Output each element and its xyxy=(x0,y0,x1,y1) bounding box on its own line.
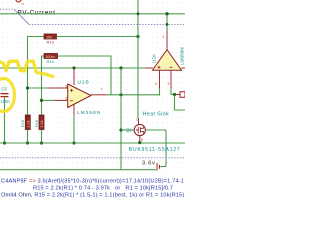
svg-text:7: 7 xyxy=(101,87,103,91)
junction dot at (41.5,143) xyxy=(40,141,43,144)
wire net A horizontal y=13.8 xyxy=(0,13,185,15)
junction dot at (138,13.8) xyxy=(137,12,140,15)
resistor R14 xyxy=(44,54,58,64)
junction dot at (27.5,143) xyxy=(26,141,29,144)
wire R15 bottom to rail xyxy=(27,130,29,144)
resistor R13 xyxy=(44,34,57,44)
svg-text:C4ANP8F => 3.6(Aref)/(35*10-3(: C4ANP8F => 3.6(Aref)/(35*10-3(n)*6(curre… xyxy=(1,178,184,184)
svg-text:Omit4 Ohm, R15 = 2.2k(R1) * (1: Omit4 Ohm, R15 = 2.2k(R1) * (1.5-1) = 1.… xyxy=(1,192,184,198)
capacitor C5 xyxy=(1,87,11,105)
wire U2A -in to sense node xyxy=(171,88,175,95)
svg-text:2.2k: 2.2k xyxy=(26,120,30,127)
junction dot at (27.5,88) xyxy=(26,86,29,89)
transistor Q1 BUK9511 xyxy=(126,118,145,142)
pin U2A -in xyxy=(170,70,172,88)
wire +in to V1 xyxy=(28,87,50,89)
port P1 (cropped red circle) xyxy=(16,0,24,6)
svg-text:n: n xyxy=(22,2,24,6)
pin of cropped component at right edge xyxy=(176,92,185,98)
resistor R15 xyxy=(21,115,30,130)
wire sense node down and right xyxy=(175,95,186,111)
wire U2A output net vertical x=167 xyxy=(166,14,168,31)
annotation yellow loop around C5 xyxy=(0,79,15,112)
junction dot at (4.5,143) xyxy=(3,141,6,144)
bus B1 horizontal y=24.4 xyxy=(29,23,185,25)
wire U2B V- to ground rail xyxy=(73,115,75,143)
svg-text:R13: R13 xyxy=(47,39,55,44)
svg-text:C5: C5 xyxy=(2,87,8,92)
junction dot at (174.5,94.5) xyxy=(173,93,176,96)
svg-text:R14: R14 xyxy=(47,59,55,64)
svg-text:R16: R16 xyxy=(35,120,39,127)
svg-text:1: 1 xyxy=(162,35,164,39)
wire R13 left lead xyxy=(27,36,44,38)
wire battery branch bottom xyxy=(161,166,167,168)
op-amp U2A xyxy=(146,31,186,87)
wire C5 bottom to ground rail xyxy=(4,97,6,143)
pin U2A +in xyxy=(159,70,161,88)
resistor R16 xyxy=(35,115,44,130)
battery BT1 xyxy=(157,163,160,171)
pin U2B +in xyxy=(49,87,68,89)
junction dot at (121,94.8) xyxy=(119,93,122,96)
pin U2B output xyxy=(91,94,107,96)
bus B2 horizontal y=157.8 xyxy=(0,157,185,159)
junction dot at (138,36.5) xyxy=(136,35,139,38)
svg-text:U2B: U2B xyxy=(78,79,90,85)
wire ground rail y=143 xyxy=(0,142,185,144)
junction dot at (167,13.8) xyxy=(165,12,168,15)
bus entry diagonal xyxy=(14,9,29,24)
svg-text:Q1: Q1 xyxy=(126,127,132,132)
wire R16 bottom to rail xyxy=(41,130,43,144)
svg-text:2.2k: 2.2k xyxy=(40,120,44,127)
wire R14 right lead feedback xyxy=(58,56,112,95)
svg-text:2: 2 xyxy=(168,82,170,86)
junction dot at (139.8,142.2) xyxy=(138,141,141,144)
svg-text:Heat Sink: Heat Sink xyxy=(143,112,170,118)
wire output to U2A +in xyxy=(107,94,160,96)
junction dot at (167,24.4) xyxy=(166,23,169,26)
svg-text:LM358N: LM358N xyxy=(77,110,101,116)
junction dot at (74,143) xyxy=(72,141,75,144)
svg-text:100n: 100n xyxy=(1,99,11,104)
svg-text:LM358N: LM358N xyxy=(179,47,184,64)
svg-text:R15 = 2.2k(R1) * 0.74 - 3.97k: R15 = 2.2k(R1) * 0.74 - 3.97k or R1 = 10… xyxy=(33,185,173,191)
wire U2A +in down to output net xyxy=(159,88,162,95)
svg-text:PV-Current: PV-Current xyxy=(18,9,56,16)
junction dot at (41.5,100.4) xyxy=(40,99,43,102)
junction dot at (121,68) xyxy=(119,66,122,69)
wire vertical V1 (node to R15) xyxy=(27,37,29,116)
wire gate net vertical x=121 xyxy=(120,68,122,170)
wire R14 left lead to V2 xyxy=(42,56,45,115)
wire gate horizontal xyxy=(121,129,133,131)
svg-text:U2A: U2A xyxy=(152,53,157,63)
annotation yellow squiggle xyxy=(0,61,53,77)
wire output net y=68 xyxy=(0,67,146,69)
wire drain net vertical x=138 xyxy=(137,0,139,119)
wire rail2 y=169.7 xyxy=(0,169,156,171)
svg-text:3: 3 xyxy=(155,82,157,86)
wire R13 right lead to node xyxy=(57,36,139,38)
wire Q1 right tab xyxy=(145,129,166,131)
pin U2B -in xyxy=(54,99,68,101)
wire battery branch vertical x=166 xyxy=(165,130,167,167)
op-amp U2B xyxy=(66,68,103,116)
svg-text:BUK9511-55A127: BUK9511-55A127 xyxy=(129,147,181,153)
bus B1 horizontal stub left xyxy=(0,8,14,10)
svg-text:R15: R15 xyxy=(21,120,25,127)
junction dot at (74,68) xyxy=(72,66,75,69)
svg-text:3.6v: 3.6v xyxy=(142,161,156,167)
junction dot at (121,130) xyxy=(119,128,122,131)
wire -in to V2 xyxy=(42,99,55,101)
